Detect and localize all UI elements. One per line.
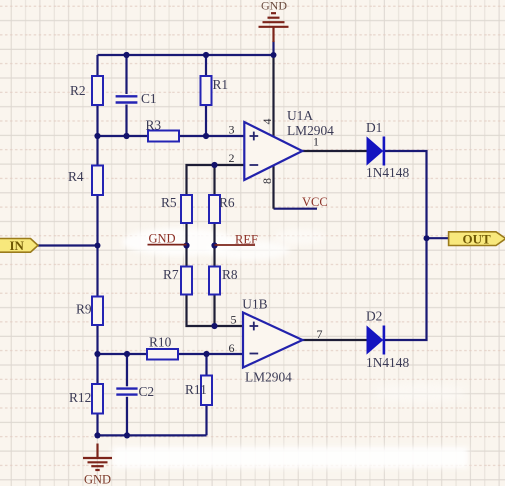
svg-text:GND: GND (261, 0, 287, 13)
svg-text:R7: R7 (163, 267, 179, 282)
svg-text:3: 3 (229, 123, 235, 137)
svg-text:D1: D1 (366, 120, 382, 135)
svg-text:R12: R12 (69, 390, 91, 405)
svg-text:R3: R3 (146, 118, 162, 133)
svg-text:1N4148: 1N4148 (366, 355, 409, 370)
svg-text:VCC: VCC (302, 195, 328, 209)
svg-text:1: 1 (313, 135, 319, 149)
svg-text:R10: R10 (149, 335, 172, 350)
svg-text:R11: R11 (185, 382, 207, 397)
svg-text:7: 7 (317, 327, 323, 341)
svg-text:R9: R9 (76, 302, 92, 317)
svg-text:4: 4 (260, 119, 274, 125)
svg-text:6: 6 (229, 341, 235, 355)
svg-text:OUT: OUT (463, 232, 492, 247)
svg-text:U1A: U1A (287, 108, 313, 123)
svg-text:GND: GND (149, 232, 176, 246)
svg-text:C2: C2 (139, 384, 155, 399)
svg-text:R2: R2 (70, 83, 86, 98)
svg-text:5: 5 (231, 313, 237, 327)
svg-text:D2: D2 (366, 309, 382, 324)
svg-text:8: 8 (260, 178, 274, 184)
svg-text:2: 2 (229, 151, 235, 165)
svg-text:C1: C1 (141, 91, 157, 106)
svg-text:GND: GND (84, 473, 111, 486)
svg-text:R6: R6 (219, 195, 235, 210)
svg-text:R5: R5 (161, 195, 177, 210)
svg-text:R1: R1 (213, 77, 229, 92)
svg-text:LM2904: LM2904 (287, 123, 334, 138)
svg-text:LM2904: LM2904 (245, 370, 292, 385)
svg-text:IN: IN (10, 238, 25, 253)
svg-text:1N4148: 1N4148 (366, 165, 409, 180)
svg-text:R8: R8 (222, 267, 238, 282)
svg-text:R4: R4 (68, 169, 84, 184)
svg-text:U1B: U1B (242, 297, 267, 312)
